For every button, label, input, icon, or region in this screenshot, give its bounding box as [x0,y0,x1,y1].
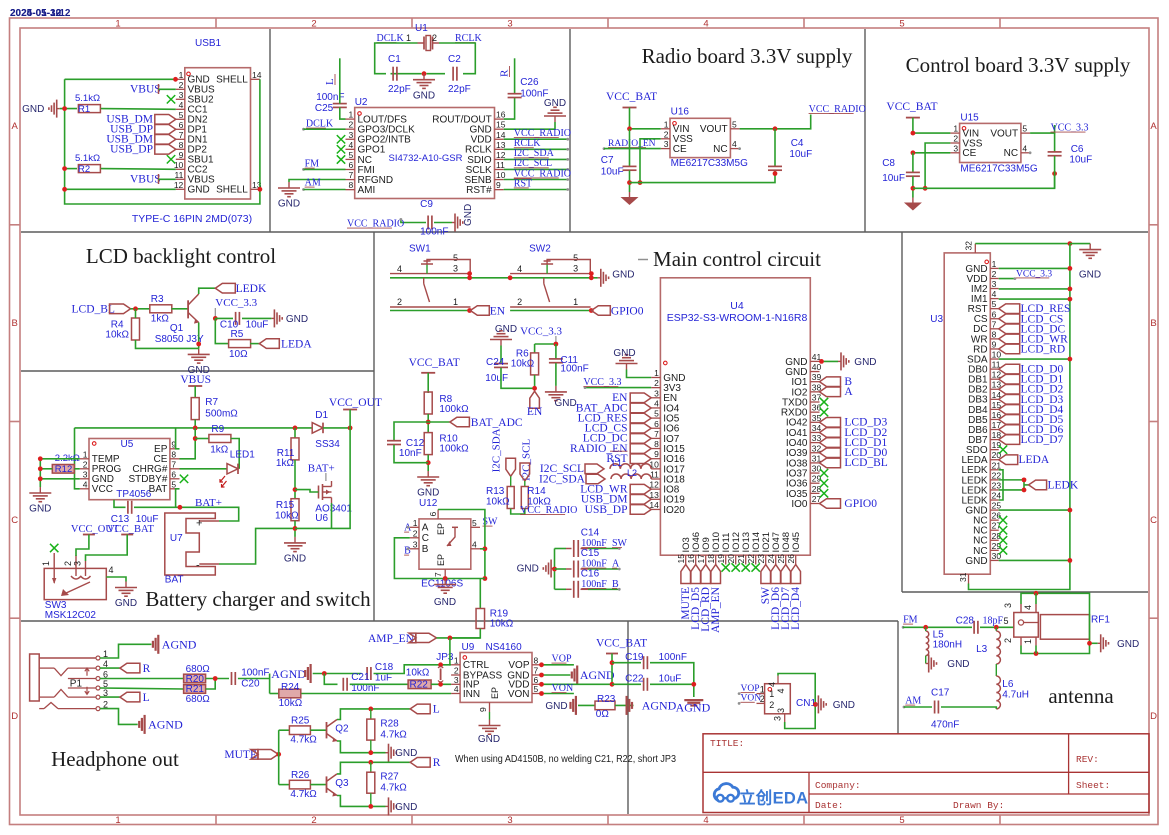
svg-text:6: 6 [348,160,353,170]
ground [271,317,274,319]
U12 pin 7 EP bottom [444,569,446,578]
net port LEDK U3 [1029,480,1047,490]
resistor R6 [534,344,536,353]
svg-text:6: 6 [179,120,184,130]
svg-text:37: 37 [812,393,822,403]
svg-text:RST#: RST# [466,185,492,196]
svg-text:680Ω: 680Ω [186,694,211,705]
U9 pin 5 VON [532,693,541,695]
svg-text:USB_DP: USB_DP [110,144,153,156]
wire SW1 bottom to EN [390,310,470,312]
svg-text:L2: L2 [627,468,637,478]
P1 pin 3 [96,695,100,699]
svg-text:2: 2 [311,18,316,29]
U4 pin 37 TXD0 [810,401,819,403]
svg-text:1: 1 [1023,639,1033,644]
svg-text:3: 3 [776,708,786,713]
svg-text:Sheet:: Sheet: [1076,780,1110,791]
svg-text:Q1: Q1 [170,323,184,334]
U15 pin 4 NC [1021,152,1030,154]
U4 pin 23 IO21 [765,555,767,564]
resistor R8 [424,392,432,414]
svg-text:R5: R5 [231,329,244,340]
svg-text:C25: C25 [315,103,334,114]
svg-text:24: 24 [992,491,1002,501]
svg-text:GND: GND [278,199,300,210]
wire R stub [514,58,516,94]
U12 pin 5 SW [471,526,480,528]
USB1 pin 2 [176,88,185,90]
junction [627,126,632,131]
wire P1 pin6 to R20 [100,678,184,680]
wire battery minus [219,528,295,564]
svg-text:U9: U9 [462,642,475,653]
junction [426,460,431,465]
U9 pin 4 INN [451,693,460,695]
svg-text:U6: U6 [315,513,328,524]
ground [452,222,455,224]
svg-text:LCD backlight control: LCD backlight control [86,244,276,268]
svg-text:2: 2 [432,33,437,43]
wire U3 pin10 [999,358,1070,360]
power flag [906,117,920,119]
resistor R2 [78,165,100,173]
wire R12 [40,468,52,470]
wire U3 pin25 gnd [999,509,1070,511]
analog ground [569,702,571,709]
svg-text:L: L [433,703,440,715]
wire R23 right [615,704,634,706]
svg-text:Battery charger and switch: Battery charger and switch [145,587,371,611]
frame row ticks [10,224,21,226]
net port EN down [530,391,540,408]
svg-text:EP: EP [436,554,446,566]
wire CN1 loop [778,674,815,729]
svg-text:CE: CE [673,144,687,155]
P1 pin 4 [96,666,100,670]
net port EN sw1 [470,306,489,316]
net port LCD_WR U3 [999,334,1020,344]
wire U2 net I2C_SDA [504,158,568,160]
svg-text:U15: U15 [960,113,979,124]
junction [610,660,615,665]
svg-text:19: 19 [992,440,1002,450]
svg-text:Radio board 3.3V supply: Radio board 3.3V supply [642,44,853,68]
wire R24 to INN [301,693,451,695]
frame column ticks [215,18,217,28]
svg-text:30: 30 [992,551,1002,561]
capacitor C11 [555,344,557,359]
ic U9 body [460,653,532,703]
svg-text:9: 9 [654,449,659,459]
wire VOUT to VCC_3.3 [1030,125,1055,133]
net port USB_DM U4 [630,495,651,505]
wire U2 net RCLK [504,148,568,150]
ground U4 pin41 [820,360,839,362]
wire R4 loop [135,309,137,318]
svg-text:2: 2 [992,269,997,279]
no-connect SW3 pin1 [50,544,58,552]
svg-text:3: 3 [453,264,458,274]
junction [691,682,696,687]
svg-text:100nF: 100nF [420,227,448,238]
resistor R26 [289,780,310,789]
U4 pin 21 IO13 [745,555,747,564]
SW3 pin2 [75,555,77,576]
U2 pin 12 [495,158,504,160]
ground U3 top [1070,243,1090,245]
svg-text:5: 5 [899,815,904,826]
svg-text:GND: GND [284,554,306,565]
U4 pin 8 IO15 [651,448,660,450]
wire VSS down control [925,143,950,188]
svg-text:29: 29 [812,474,822,484]
junction [443,576,448,581]
junction [532,386,537,391]
U2 pin 4 [346,148,355,150]
junction [610,682,615,687]
svg-text:GND: GND [434,597,456,608]
svg-text:2: 2 [413,528,418,538]
wire DCLK to pin2 [304,128,346,130]
svg-text:26: 26 [992,511,1002,521]
U4 pin 31 IO38 [810,462,819,464]
svg-text:AGND: AGND [676,701,711,715]
svg-text:Date:: Date: [815,800,844,811]
svg-text:10uF: 10uF [659,674,682,685]
ground [125,582,127,588]
svg-text:GND: GND [833,700,855,711]
capacitor C21 [342,678,344,691]
U5 pin 5 BAT [170,488,180,490]
svg-text:R22: R22 [410,680,429,691]
svg-text:R23: R23 [597,694,616,705]
svg-text:1: 1 [769,689,774,699]
svg-text:10kΩ: 10kΩ [511,359,535,370]
svg-text:GPIO0: GPIO0 [844,498,877,510]
svg-text:LEDK: LEDK [1048,479,1079,491]
wire pin15 to GND [504,122,555,129]
svg-text:C22: C22 [625,674,644,685]
svg-text:10uF: 10uF [882,173,905,184]
net port GPIO0 U4 [820,499,841,509]
svg-text:-: - [196,560,200,572]
junction [38,456,43,461]
net port A U4 [820,387,841,397]
svg-text:16: 16 [686,554,696,564]
wire Q1 emitter down [198,323,200,349]
wire U2 net VCC_RADIO [504,138,568,140]
svg-text:31: 31 [958,572,968,582]
svg-text:20: 20 [726,554,736,564]
svg-text:3: 3 [773,716,783,721]
svg-text:1: 1 [115,815,120,826]
net port USB_DP U4 [630,505,651,515]
net port LCD_D4 U3 [999,405,1020,415]
svg-text:U2: U2 [355,97,368,108]
svg-text:R28: R28 [380,719,399,730]
svg-text:A: A [12,121,19,132]
svg-text:10uF: 10uF [789,149,812,160]
U2 pin 5 [346,158,355,160]
U4 pin 35 IO42 [810,421,819,423]
svg-text:24: 24 [766,554,776,564]
svg-text:3: 3 [573,264,578,274]
junction [552,567,557,572]
wire pin12 GND [65,188,176,190]
svg-text:1: 1 [953,124,958,134]
svg-text:VCC_BAT: VCC_BAT [606,91,657,103]
U2 pin 3 [346,138,355,140]
junction [193,426,198,431]
wire R10 to gnd [427,455,429,471]
svg-text:1: 1 [664,119,669,129]
svg-text:TYPE-C 16PIN 2MD(073): TYPE-C 16PIN 2MD(073) [132,213,252,225]
svg-text:L3: L3 [976,644,988,655]
svg-text:GND: GND [965,556,987,567]
ground RF1 [1090,642,1098,644]
svg-text:5: 5 [654,409,659,419]
svg-text:ME6217C33M5G: ME6217C33M5G [960,164,1037,175]
svg-text:2: 2 [664,129,669,139]
wire C13 row [114,500,126,508]
svg-text:R7: R7 [205,397,218,408]
svg-text:R: R [433,757,441,769]
svg-text:1: 1 [654,368,659,378]
junction [923,625,928,630]
U16 pin 1 VIN [661,128,670,130]
capacitor C19 [612,662,641,664]
U2 pin 6 [346,169,355,171]
wire gnd to C24 [500,346,502,364]
no-connect U2 pins 3-5 [337,135,345,143]
capacitor C24 [494,363,508,365]
resistor R9 [195,438,209,440]
svg-text:A: A [422,523,429,534]
USB1 pin 8 [176,148,185,150]
svg-text:2: 2 [769,700,774,710]
svg-text:EP: EP [436,523,446,535]
capacitor C2 [452,67,454,81]
svg-text:AGND: AGND [642,699,677,713]
svg-text:1: 1 [992,259,997,269]
power flag [421,372,435,374]
U4 pin 4 IO4 [651,407,660,409]
svg-text:7: 7 [654,429,659,439]
junction [923,186,928,191]
U2 pin 13 [495,148,504,150]
junction [322,671,327,676]
junction [483,576,488,581]
svg-text:LCD_BL: LCD_BL [844,457,887,469]
wire rail to R9 [180,428,196,459]
svg-text:BAT+: BAT+ [308,463,335,475]
U12 pin 3 B [410,548,419,550]
svg-text:3: 3 [413,539,418,549]
svg-text:R2: R2 [78,164,90,175]
svg-text:TITLE:: TITLE: [710,738,744,749]
wire U12 left loop [394,538,485,579]
analog ground [138,721,140,728]
svg-text:SHELL: SHELL [216,75,248,86]
svg-text:ME6217C33M5G: ME6217C33M5G [671,158,748,169]
svg-text:3: 3 [507,815,512,826]
wire CE rail [913,152,951,154]
ground [198,348,200,354]
power flag [83,534,95,536]
svg-text:17: 17 [696,554,706,564]
svg-text:INN: INN [463,689,480,700]
net port LCD_WR U4 [630,484,651,494]
svg-text:1: 1 [115,18,120,29]
U3 pin 8 WR [990,338,998,340]
svg-text:5: 5 [453,253,458,263]
wire Q2 emitter gnd [337,741,386,753]
capacitor C28 [973,621,975,634]
svg-text:GND: GND [1079,270,1101,281]
svg-text:R1: R1 [78,104,90,115]
svg-text:L: L [143,692,150,704]
svg-text:D: D [11,711,18,722]
net port LCD_RES U4 [630,413,651,423]
capacitor C15 [555,568,567,570]
ground [551,568,554,570]
U16 pin 2 VSS [661,138,670,140]
svg-text:R: R [499,69,511,77]
svg-text:40: 40 [812,362,822,372]
svg-text:29: 29 [992,541,1002,551]
wire Q2 collector to L [337,709,410,720]
capacitor C20 [231,672,233,685]
svg-text:1: 1 [83,449,88,459]
svg-text:5: 5 [899,18,904,29]
svg-text:3: 3 [992,279,997,289]
svg-text:AGND: AGND [271,667,306,681]
svg-text:C: C [1150,515,1157,526]
svg-text:9: 9 [992,339,997,349]
svg-text:SS34: SS34 [315,439,340,450]
svg-text:When using AD4150B, no welding: When using AD4150B, no welding C21, R22,… [455,753,676,765]
U4 pin 18 IO10 [715,555,717,564]
svg-text:4.7kΩ: 4.7kΩ [290,789,317,800]
wire VCC33 node [535,343,556,345]
junction [813,702,818,707]
svg-text:4: 4 [1023,605,1033,610]
svg-text:R3: R3 [151,294,164,305]
svg-text:7: 7 [992,319,997,329]
wire R23 left [578,704,595,706]
svg-text:AMP_EN: AMP_EN [710,586,722,633]
U2 pin 10 [495,179,504,181]
svg-text:2: 2 [179,80,184,90]
junction [539,691,544,696]
svg-text:7: 7 [179,130,184,140]
USB1 pin 7 [176,138,185,140]
net port LCD_D2 U3 [999,384,1020,394]
wire R22 to INP [431,683,451,685]
U3 pin 9 RD [990,348,998,350]
net port LCD_DC U4 [630,434,651,444]
wire R15 down [294,521,296,537]
wire R3 to Q1 base [171,308,188,310]
svg-text:5: 5 [472,518,477,528]
junction [1068,287,1073,292]
wire VIN control [913,132,951,134]
svg-text:100nF: 100nF [560,364,588,375]
junction [276,752,281,757]
junction [508,275,513,280]
svg-text:LEDA: LEDA [281,339,312,351]
junction [193,436,198,441]
net port MUTE U4 bottom [681,565,691,584]
svg-text:LCD_D4: LCD_D4 [790,587,802,630]
wire FM to pin6 [304,168,346,170]
capacitor C13 [127,501,129,514]
U3 pin 27 NC [990,529,998,531]
U3 pin 7 DC [990,328,998,330]
U3 pin 14 DB3 [990,398,998,400]
net port LCD_D7 U3 [999,435,1020,445]
svg-text:4: 4 [992,289,997,299]
U4 pin 9 IO16 [651,458,660,460]
U4 pin 26 IO45 [795,555,797,564]
U4 pin 33 IO40 [810,442,819,444]
analog ground [690,704,697,706]
svg-text:3: 3 [348,130,353,140]
svg-text:4: 4 [703,18,708,29]
svg-text:10kΩ: 10kΩ [486,497,510,508]
junction [994,625,999,630]
svg-text:6: 6 [171,469,176,479]
wire left bus [65,79,260,204]
wire bottom rail to C4 [630,170,776,182]
svg-text:EN: EN [490,305,506,317]
svg-text:VOUT: VOUT [990,129,1018,140]
svg-text:1kΩ: 1kΩ [276,458,295,469]
analog ground [152,641,154,648]
svg-text:USB_DP: USB_DP [585,504,628,516]
U9 pin 6 VDD [532,683,541,685]
net port LCD_BL U4 [820,458,841,468]
svg-text:GND: GND [413,90,435,101]
junction [539,682,544,687]
svg-text:VCC_3.3: VCC_3.3 [215,297,257,309]
svg-text:1: 1 [41,561,51,566]
U2 pin 16 [495,118,504,120]
U3 pin 1 GND [990,267,998,269]
svg-text:GND: GND [545,701,567,712]
junction [62,106,67,111]
junction [422,71,427,76]
U3 pin 4 IM1 [990,298,998,300]
svg-text:VON: VON [508,689,530,700]
svg-text:7: 7 [348,170,353,180]
svg-text:2: 2 [348,120,353,130]
svg-text:1kΩ: 1kΩ [151,314,170,325]
svg-text:NC: NC [1004,148,1018,159]
svg-text:5: 5 [1022,124,1027,134]
U3 pin 29 NC [990,549,998,551]
transistor Q3 [326,776,328,792]
wire U2 net RST [504,189,568,191]
U4 pin 14 IO20 [651,508,660,510]
capacitor C10 [235,312,237,325]
junction [1034,651,1039,656]
net port LEDK [215,283,235,293]
resistor R24 [279,689,301,698]
net port R amp [410,758,430,768]
no-connect pin 3 [167,95,175,103]
